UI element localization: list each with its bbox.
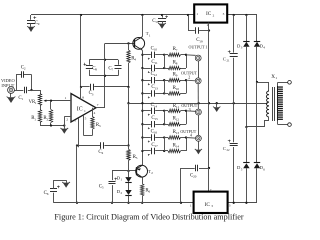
junction C3 node (80, 86, 82, 88)
diode D3 (243, 41, 249, 43)
wire +V top rail right segment (228, 14, 258, 16)
junction D2 / bottom rail (127, 202, 129, 204)
wire bus to C16 (142, 137, 150, 139)
wire parallel join left channel 2 (164, 80, 166, 93)
wire parallel join right channel 1 (186, 55, 188, 68)
wire C22 top lead (233, 103, 235, 142)
wire to output connector 3 (186, 110, 196, 113)
junction wiper wire / R2 (50, 100, 52, 102)
wire parallel join left channel 3 (164, 111, 166, 124)
svg-text:12: 12 (154, 73, 158, 77)
ground under C9 (28, 27, 35, 32)
wire pin 3 stub (78, 118, 80, 147)
wire C20 to node (199, 168, 209, 170)
capacitor C20 (195, 165, 197, 171)
capacitor C10 (151, 52, 153, 58)
op-amp IC1 (71, 94, 96, 123)
resistor R13 (168, 136, 181, 139)
junction ground node left (63, 124, 65, 126)
wire below OUTPUT 4 (198, 141, 200, 149)
wire C2 branch (16, 75, 18, 91)
junction mid rail / connector shield chain (197, 102, 199, 104)
wire R7 right lead (181, 54, 187, 56)
junction cap bus row C13 (141, 92, 143, 94)
wire R5 to base node (128, 160, 130, 171)
wire parallel join right channel 4 (186, 138, 188, 152)
svg-text:14: 14 (154, 104, 158, 108)
junction T1 base / R4 (127, 42, 129, 44)
capacitor C7 (115, 65, 122, 67)
junction mid rail / IC2 pin2 column (208, 102, 210, 104)
wire input to C1 (14, 90, 23, 92)
wire C3 left lead (81, 86, 90, 88)
wire C4 row right (104, 145, 128, 147)
regulator IC3 (194, 192, 228, 213)
capacitor C16 (151, 134, 153, 140)
wire C16 to node (155, 137, 164, 139)
wire D2 to bottom rail (128, 196, 130, 203)
wire parallel join right channel 3 (186, 111, 188, 124)
junction output node channel 2 (185, 79, 187, 81)
capacitor C21 (230, 53, 238, 55)
resistor R12 (168, 123, 181, 126)
svg-text:5: 5 (85, 116, 87, 120)
svg-text:8: 8 (82, 96, 84, 100)
transformer X1 secondary winding (277, 86, 279, 121)
wire R8 right lead (181, 68, 187, 70)
junction top rail / C18 (161, 14, 163, 16)
wire R4 column to mid rail (128, 87, 130, 103)
wire R10 right lead (181, 93, 187, 95)
junction top rail / T1 collector (141, 14, 143, 16)
wire D5 column (246, 127, 248, 163)
connector OUTPUT 4 (195, 135, 201, 141)
diode D6 (254, 162, 260, 164)
junction top rail / D3 column (245, 14, 247, 16)
wire to output connector 4 (186, 137, 196, 140)
junction primary top tap (256, 81, 258, 83)
junction C20 branch / bottom rail (180, 202, 182, 204)
junction C20 node (208, 167, 210, 169)
junction resistor node row 1 (163, 54, 165, 56)
junction cap bus row C14 (141, 110, 143, 112)
wire C21 to mid rail (233, 58, 235, 103)
potentiometer VR1 (38, 94, 41, 106)
junction pin3 column / C4 row (76, 144, 78, 146)
capacitor C5 (109, 181, 116, 183)
wire C15 to node (155, 124, 164, 126)
wire D3 to tap node (246, 47, 248, 127)
wire T1 collector to rail (142, 15, 144, 37)
wire parallel join left channel 1 (164, 55, 166, 68)
junction resistor node row 7 (163, 136, 165, 138)
svg-text:16: 16 (154, 130, 158, 134)
ground near C6 (63, 183, 70, 188)
transformer X1 core (272, 87, 274, 121)
junction output node channel 3 (185, 110, 187, 112)
wire D6 column (256, 82, 258, 163)
transistor T2 (136, 165, 148, 177)
wire base node to T2 (129, 170, 137, 172)
wire node to R10 (164, 93, 168, 95)
capacitor C11 (151, 65, 153, 71)
wire node to R7 (164, 54, 168, 56)
wire C22 to bottom rail (233, 147, 235, 203)
wire bus to C12 (142, 80, 150, 82)
wire D1 to D2 (128, 183, 130, 190)
wire to output connector 2 (186, 79, 196, 82)
junction resistor node row 6 (163, 123, 165, 125)
junction D5 / bottom rail (245, 202, 247, 204)
ground on mid rail (216, 103, 218, 107)
wire D6 to bottom rail (256, 168, 258, 203)
junction pin3 column / bottom rail (76, 202, 78, 204)
wire bottom rail right (227, 202, 257, 204)
resistor R14 (168, 149, 181, 152)
resistor R8 (168, 66, 181, 69)
junction mid rail / cap bus (141, 102, 143, 104)
junction cap bus row C17 (141, 150, 143, 152)
svg-text:C: C (223, 57, 226, 62)
wire bus to C13 (142, 93, 150, 95)
wire bus to C14 (142, 110, 150, 112)
ground below OUTPUT 4 (195, 150, 201, 155)
wire pin 4 stub (92, 108, 94, 117)
junction R6 / bottom rail (141, 202, 143, 204)
capacitor C22 (230, 143, 238, 145)
wire primary bottom lead (247, 117, 269, 127)
junction rail / C19 branch (187, 14, 189, 16)
svg-text:IC: IC (206, 11, 212, 17)
svg-text:1: 1 (275, 76, 277, 80)
svg-text:1: 1 (190, 204, 192, 208)
wire R14 right lead (181, 150, 187, 152)
svg-text:10: 10 (154, 48, 158, 52)
connector OUTPUT 2 (195, 78, 201, 84)
junction cap bus row C16 (141, 136, 143, 138)
junction mid rail / C21 column (233, 102, 235, 104)
wire R9 right lead (181, 80, 187, 82)
svg-text:14: 14 (176, 145, 180, 149)
svg-text:Figure 1: Circuit Diagram of V: Figure 1: Circuit Diagram of Video Distr… (54, 213, 244, 222)
junction frame bottom (104, 75, 106, 77)
pin 8 stub of IC1 (80, 87, 82, 99)
terminal mains bottom (288, 123, 292, 127)
svg-text:IC: IC (205, 202, 211, 208)
wire bus to C11 (142, 68, 150, 70)
diode D2 (125, 190, 131, 195)
wire D3 column top (246, 15, 248, 41)
capacitor C1 (24, 87, 26, 93)
wire top tap to primary (257, 82, 269, 84)
resistor R3 (91, 117, 94, 130)
terminal mains top (288, 81, 292, 85)
svg-text:OUTPUT 1: OUTPUT 1 (189, 45, 208, 50)
resistor R11 (168, 109, 181, 112)
junction resistor node row 8 (163, 150, 165, 152)
capacitor C17 (151, 148, 153, 154)
junction cap bus row C12 (141, 79, 143, 81)
resistor R9 (168, 79, 181, 82)
svg-text:OUTPUT: OUTPUT (180, 129, 196, 134)
capacitor C13 (151, 90, 153, 96)
resistor R10 (168, 92, 181, 95)
wire C14 to node (155, 110, 164, 112)
connector OUTPUT 1 (195, 55, 201, 61)
wire VR1 to R1 (40, 106, 42, 110)
capacitor C4 (100, 142, 102, 148)
junction C5 / bottom rail (111, 202, 113, 204)
wire node to R8 (164, 68, 168, 70)
capacitor C3 (90, 84, 92, 90)
wire VR1 top lead (40, 90, 42, 94)
wire pin3 column to bottom rail (76, 146, 78, 203)
resistor R5 (128, 146, 130, 150)
svg-text:2: 2 (188, 74, 190, 79)
wire node to R11 (164, 110, 168, 112)
wire C10 to node (155, 54, 164, 56)
svg-text:2: 2 (66, 117, 68, 121)
wire C3 right lead (94, 86, 128, 88)
ground under input connector (10, 93, 12, 97)
wire output riser (104, 76, 106, 108)
svg-text:IC: IC (77, 107, 83, 113)
wire +V top rail left segment (31, 14, 194, 16)
ground under C18 (159, 24, 166, 29)
wire C20 branch (180, 168, 182, 203)
wire C4 row left (77, 145, 100, 147)
svg-text:INPUT: INPUT (1, 83, 14, 88)
wire secondary top lead (277, 82, 279, 86)
junction primary bottom tap (245, 126, 247, 128)
wire C6 top branch (53, 180, 55, 189)
junction top rail / C21 column (233, 14, 235, 16)
diode D1 (125, 177, 131, 182)
connector OUTPUT 3 (195, 109, 201, 115)
capacitor C19 (195, 27, 197, 33)
capacitor C6 (50, 188, 57, 190)
junction cap bus row C11 (141, 67, 143, 69)
capacitor C2 (21, 71, 23, 77)
wire C7 C8 top frame (89, 59, 118, 61)
wire parallel join left channel 4 (164, 138, 166, 152)
junction resistor node row 5 (163, 110, 165, 112)
junction output node channel 1 (185, 54, 187, 56)
wire connector shield chain 3-4 (198, 115, 200, 135)
junction frame top (104, 59, 106, 61)
capacitor C9 (30, 15, 32, 20)
wire C17 to node (155, 150, 164, 152)
svg-text:4: 4 (190, 133, 192, 138)
wire frame to T1 base (104, 43, 106, 75)
svg-text:15: 15 (155, 117, 159, 121)
wire connector shield chain rail-3 (197, 103, 199, 109)
wire bottom rail (54, 202, 195, 204)
svg-text:13: 13 (176, 131, 180, 135)
wire mid rail to R5 (128, 103, 130, 145)
wire C11 to node (155, 68, 164, 70)
wire T2 collector lead (142, 177, 144, 183)
wire C1 to VR1 (28, 90, 40, 92)
wire C21 top lead (233, 15, 235, 53)
junction top rail / left supply column (80, 14, 82, 16)
svg-text:7: 7 (97, 103, 99, 107)
wire connector shield chain 1-2 (198, 61, 200, 78)
wire R11 right lead (181, 110, 187, 112)
junction R5 top / C4 row (127, 144, 129, 146)
junction resistor node row 2 (163, 67, 165, 69)
svg-text:21: 21 (227, 59, 231, 63)
wire IC2 pin2 column (208, 23, 210, 104)
wire D4 column top (256, 15, 258, 41)
wire C19 to pin2 column (199, 30, 209, 32)
wire to output connector 1 (186, 54, 196, 57)
junction resistor node row 3 (163, 79, 165, 81)
wire R12 right lead (181, 124, 187, 126)
junction resistor node row 4 (163, 92, 165, 94)
svg-text:20: 20 (193, 175, 197, 179)
wire node to R14 (164, 150, 168, 152)
junction cap bus row C15 (141, 123, 143, 125)
svg-text:2: 2 (210, 188, 212, 192)
wire parallel join right channel 2 (186, 80, 188, 93)
resistor R4 (128, 43, 130, 50)
capacitor C15 (151, 121, 153, 127)
wire C19 loop (188, 15, 190, 31)
svg-text:22: 22 (227, 148, 231, 152)
svg-text:3: 3 (223, 12, 225, 16)
connector VIDEO INPUT (8, 87, 15, 94)
svg-text:1: 1 (196, 12, 198, 16)
wire C12 to node (155, 80, 164, 82)
diode D5 (243, 162, 249, 164)
junction C19 / pin2 column (208, 29, 210, 31)
wire mid rail (129, 103, 268, 105)
wire secondary bottom lead (277, 121, 279, 125)
capacitor C12 (151, 77, 153, 83)
wire connector shield chain 2-rail (197, 84, 199, 103)
wire R2 top lead (50, 101, 52, 110)
wire bus to C15 (142, 124, 150, 126)
wire C13 to node (155, 93, 164, 95)
junction cap bus row C10 (141, 54, 143, 56)
svg-text:3: 3 (229, 204, 231, 208)
junction T2 base node (127, 170, 129, 172)
svg-text:17: 17 (155, 144, 159, 148)
svg-text:11: 11 (176, 105, 180, 109)
junction mid rail / ground stub (216, 102, 218, 104)
junction C22 / bottom rail (233, 202, 235, 204)
wire pin2 column to IC3 (208, 168, 210, 192)
wire D4 to top tap (256, 47, 258, 82)
wire R13 right lead (181, 137, 187, 139)
wire R4 to C3 node (128, 63, 130, 87)
wire pin2 column mid to C20 (208, 103, 210, 168)
wire bus to C17 (142, 150, 150, 152)
ground at op-amp input (64, 126, 66, 129)
junction C1/C2 output node (30, 89, 32, 91)
wire R3 bottom U (92, 129, 94, 135)
svg-text:11: 11 (155, 61, 159, 65)
svg-text:3: 3 (74, 119, 76, 123)
wire T2 emitter to bus (142, 164, 144, 166)
wire C7 C8 bottom frame (89, 70, 91, 76)
junction R4 column / C3 row (127, 86, 129, 88)
resistor R1 (38, 110, 41, 123)
svg-text:3: 3 (189, 107, 191, 112)
diode D4 (254, 41, 260, 43)
junction R2 bottom (50, 124, 52, 126)
wire R1 R2 bottom rail (40, 123, 42, 126)
svg-text:C: C (223, 146, 226, 151)
resistor R7 (168, 53, 181, 56)
wire supply column to C3 node (80, 15, 82, 87)
wire C5 to bottom rail (112, 185, 114, 203)
regulator IC2 (194, 4, 227, 22)
wire node to R13 (164, 137, 168, 139)
svg-text:1: 1 (65, 96, 67, 100)
capacitor C8 (86, 65, 93, 67)
svg-text:19: 19 (199, 39, 203, 43)
wire bus to C10 (142, 54, 150, 56)
wire base node to D1 (128, 171, 130, 177)
junction R4 column / mid rail (127, 102, 129, 104)
wire base node to C5 (112, 170, 129, 172)
svg-text:4: 4 (94, 111, 96, 115)
capacitor C18 (162, 15, 164, 18)
svg-text:1: 1 (84, 109, 86, 113)
wire pin 2 to ground node (64, 117, 66, 126)
svg-text:12: 12 (176, 118, 180, 122)
svg-text:13: 13 (155, 86, 159, 90)
wire node to R9 (164, 80, 168, 82)
VR1 wiper arrow (45, 100, 71, 102)
resistor R2 (49, 110, 52, 123)
junction output node channel 4 (185, 136, 187, 138)
wire T1 emitter to bus (142, 50, 144, 165)
wire C6 to bottom rail (53, 193, 55, 203)
wire D5 to bottom rail (246, 168, 248, 203)
resistor R6 (141, 184, 144, 196)
svg-text:10: 10 (176, 87, 180, 91)
wire R6 to bottom rail (142, 196, 144, 203)
wire node to R12 (164, 124, 168, 126)
capacitor C14 (151, 108, 153, 114)
wire IC1 output (96, 107, 105, 109)
transistor T1 (133, 38, 145, 50)
transformer X1 primary winding (267, 91, 269, 95)
